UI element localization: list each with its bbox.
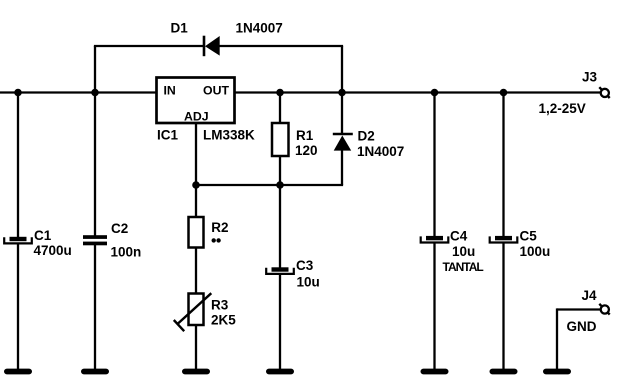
connector J4: [599, 304, 609, 315]
wire C4 bottom: [433, 243, 435, 370]
trimmer R3: [174, 293, 212, 331]
wire R1 bottom: [279, 156, 281, 185]
wire D1 left riser: [94, 46, 96, 93]
wire D1 top right segment: [219, 45, 343, 47]
wire J4 vertical: [556, 308, 558, 370]
svg-text:C4: C4: [450, 229, 468, 244]
wire C4 top: [433, 93, 435, 238]
wire C3 top: [279, 185, 281, 269]
node junction D1/D2: [338, 89, 346, 97]
svg-text:GND: GND: [567, 319, 597, 334]
svg-text:100u: 100u: [520, 244, 551, 259]
ground (R3 column): [182, 369, 210, 375]
svg-text:IN: IN: [164, 84, 176, 98]
node junction C2/D1 riser: [91, 89, 99, 97]
node junction C3/ADJ: [276, 181, 284, 189]
ground (C1 column): [4, 369, 32, 375]
svg-text:J4: J4: [582, 288, 598, 303]
ground (C3 column): [266, 369, 294, 375]
wire D2 top: [341, 93, 343, 135]
connector J3: [599, 87, 609, 98]
svg-text:D2: D2: [358, 129, 375, 144]
wire ADJ pin down: [195, 123, 197, 186]
ground (C4 column): [421, 369, 449, 375]
wire R1 top: [279, 93, 281, 124]
svg-text:C5: C5: [520, 229, 538, 244]
wire R2 top: [195, 185, 197, 217]
diode D2: [333, 134, 353, 151]
wire C1 top: [17, 93, 19, 239]
wire R2 to R3: [195, 248, 197, 294]
wire C5 bottom: [502, 243, 504, 370]
wire R3 bottom: [195, 325, 197, 370]
wire C5 top: [502, 93, 504, 238]
capacitor C2: [83, 235, 107, 245]
wire C3 bottom: [279, 275, 281, 371]
svg-text:1N4007: 1N4007: [357, 144, 404, 159]
node junction C5/rail: [500, 89, 508, 97]
svg-text:1N4007: 1N4007: [236, 20, 283, 35]
svg-text:R2: R2: [211, 220, 228, 235]
wire J4 horizontal: [557, 308, 601, 310]
svg-text:J3: J3: [582, 70, 598, 85]
svg-text:D1: D1: [171, 20, 189, 35]
node junction R1/rail: [276, 89, 284, 97]
wire D1 right riser: [341, 46, 343, 93]
capacitor C3 (electrolytic): [266, 267, 294, 274]
capacitor C4 (electrolytic): [421, 236, 449, 243]
svg-text:IC1: IC1: [157, 127, 179, 142]
wire C1 bottom: [17, 244, 19, 370]
wire ADJ horizontal: [196, 184, 343, 186]
svg-text:LM338K: LM338K: [203, 127, 255, 142]
svg-text:C3: C3: [296, 258, 314, 273]
svg-text:OUT: OUT: [203, 84, 229, 98]
resistor R2: [189, 217, 204, 248]
ground (J4 column): [543, 369, 571, 375]
label ** (R2 value): [212, 238, 221, 242]
wire D2 bottom: [341, 150, 343, 185]
wire input rail: [0, 91, 157, 93]
svg-text:100n: 100n: [111, 244, 142, 259]
svg-text:10u: 10u: [297, 275, 320, 290]
svg-text:R3: R3: [211, 298, 229, 313]
svg-text:C2: C2: [111, 221, 128, 236]
node junction C4/rail: [431, 89, 439, 97]
svg-text:120: 120: [295, 143, 318, 158]
node junction C1/rail: [14, 89, 22, 97]
ground (C5 column): [490, 369, 518, 375]
svg-text:ADJ: ADJ: [184, 110, 209, 124]
svg-text:TANTAL: TANTAL: [443, 260, 484, 274]
regulator IC1 body: [157, 78, 235, 124]
svg-text:10u: 10u: [452, 244, 475, 259]
capacitor C1 (electrolytic): [4, 237, 32, 244]
svg-text:1,2-25V: 1,2-25V: [539, 101, 586, 116]
wire D1 top left segment: [94, 45, 204, 47]
ground (C2 column): [81, 369, 109, 375]
svg-text:C1: C1: [34, 228, 52, 243]
wire C2 bottom: [94, 245, 96, 370]
svg-text:2K5: 2K5: [211, 312, 236, 327]
node junction ADJ/R2: [192, 181, 200, 189]
diode D1: [204, 36, 220, 57]
wire C2 top: [94, 93, 96, 237]
capacitor C5 (electrolytic): [490, 236, 518, 243]
wire output rail: [234, 91, 601, 93]
svg-text:4700u: 4700u: [34, 243, 72, 258]
resistor R1: [272, 123, 289, 156]
svg-text:R1: R1: [296, 128, 314, 143]
